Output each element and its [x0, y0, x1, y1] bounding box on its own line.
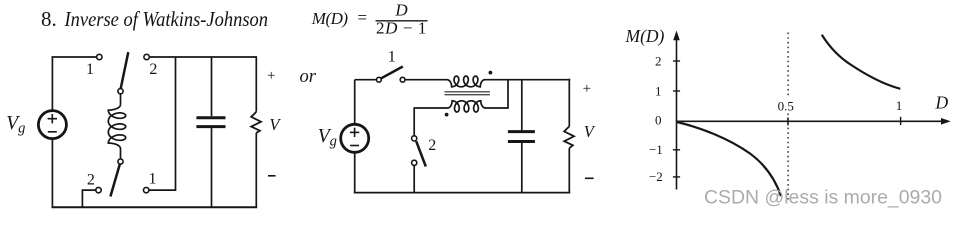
svg-text:1: 1	[149, 170, 157, 187]
curve lower branch	[677, 122, 781, 196]
source Vg (circle)	[341, 124, 369, 152]
label 0.5	[778, 98, 794, 113]
transformer primary (top winding)	[447, 76, 485, 87]
wire: capacitor branch bottom	[521, 143, 523, 193]
wire: top rail right	[149, 56, 256, 58]
svg-text:0.5: 0.5	[778, 98, 794, 113]
"or" between circuits	[300, 67, 317, 87]
fraction bar	[376, 20, 428, 22]
resistor zigzag	[564, 126, 574, 148]
y tick labels	[649, 53, 663, 184]
wire: top rail left to terminal 1	[52, 56, 97, 58]
svg-text:V: V	[269, 115, 281, 134]
terminal 2 (top right, open circle)	[144, 54, 149, 59]
wire: left rail top segment	[51, 57, 53, 110]
label D axis	[935, 93, 949, 113]
curve upper branch	[822, 35, 901, 89]
formula M(D) = D/(2D-1)	[311, 1, 427, 38]
switch 1 right contact	[400, 77, 405, 82]
Vg minus	[350, 145, 359, 147]
switch 2 blade	[416, 141, 426, 166]
wire: bottom rail	[354, 192, 570, 194]
svg-text:1: 1	[86, 61, 94, 78]
label 1 (top)	[86, 61, 94, 78]
svg-text:Vg: Vg	[318, 126, 337, 150]
phase dot bottom left	[445, 113, 449, 117]
terminal 2 (bottom left, open circle)	[96, 187, 101, 192]
svg-text:+: +	[583, 81, 591, 97]
wire: right rail top	[255, 56, 257, 112]
capacitor plates	[508, 132, 535, 142]
label + (output)	[583, 81, 591, 97]
label - (output)	[585, 177, 594, 179]
svg-text:1: 1	[388, 49, 396, 66]
switch 1 blade	[381, 67, 403, 79]
wire: secondary left stub down to switch 2	[414, 108, 448, 136]
svg-text:CSDN @less is more_0930: CSDN @less is more_0930	[704, 187, 942, 209]
wire: left rail bottom segment	[51, 139, 53, 207]
svg-text:D: D	[935, 93, 949, 113]
svg-text:=: =	[358, 8, 368, 27]
svg-text:2: 2	[655, 53, 662, 68]
svg-text:8.: 8.	[41, 7, 57, 31]
wire: switch to transformer	[405, 79, 447, 81]
wire: bottom rail	[52, 206, 258, 208]
terminal 1 (bottom right, open circle)	[144, 187, 149, 192]
label - (output)	[268, 175, 276, 177]
dotted asymptote lower part	[787, 114, 789, 200]
wire: coil to bottom pivot	[120, 148, 122, 159]
svg-text:0: 0	[655, 113, 662, 128]
label 1 (switch 1)	[388, 49, 396, 66]
phase dot top right	[489, 71, 493, 75]
transformer secondary (bottom winding)	[448, 101, 486, 112]
svg-text:M(D): M(D)	[311, 9, 349, 28]
switch blade bottom	[110, 164, 120, 197]
label M(D) axis	[625, 26, 665, 46]
capacitor C plates	[196, 118, 225, 127]
label Vg	[318, 126, 337, 150]
source Vg (circle)	[38, 111, 66, 139]
switch 2 top contact	[412, 136, 417, 141]
label Vg	[6, 113, 25, 137]
y axis arrowhead	[673, 31, 680, 41]
wire: switch 2 to bottom rail	[413, 165, 415, 192]
wire: capacitor branch top	[521, 80, 523, 131]
Vg plus	[350, 128, 359, 137]
wire: left rail bottom	[354, 153, 356, 193]
label 2 (switch 2)	[428, 137, 436, 154]
svg-text:1: 1	[655, 83, 662, 98]
resistor R zigzag	[251, 112, 261, 133]
wire: capacitor branch bottom	[211, 128, 213, 207]
label 1 (x axis)	[896, 98, 903, 113]
x tick at D=0.5	[787, 117, 789, 125]
svg-text:D: D	[394, 1, 408, 20]
wire: secondary right stub up to top rail	[485, 80, 508, 108]
svg-text:2: 2	[149, 61, 157, 78]
x axis	[677, 120, 944, 122]
svg-text:or: or	[300, 67, 317, 87]
wire: right rail bottom	[568, 148, 570, 193]
pivot circle bottom of inductor	[118, 159, 123, 164]
wire: top rail to switch	[355, 79, 377, 81]
label 1 (bottom right)	[149, 170, 157, 187]
transformer core lines	[445, 92, 491, 95]
y ticks	[673, 61, 680, 177]
switch blade top (SPDT pole)	[121, 52, 129, 88]
wire: right rail top	[568, 79, 570, 127]
label + (output)	[267, 68, 275, 84]
switch 2 bottom contact	[412, 160, 417, 165]
label 2 (bottom left)	[87, 172, 95, 189]
svg-text:1: 1	[896, 98, 903, 113]
Vg minus sign	[48, 131, 57, 133]
Vg plus sign	[48, 114, 57, 123]
svg-text:M(D): M(D)	[625, 26, 665, 46]
wire: bottom terminal 1 to riser	[149, 57, 176, 190]
wire: terminal 2 stub to bottom rail	[82, 190, 95, 207]
title "8. Inverse of Watkins-Johnson"	[41, 7, 268, 31]
svg-text:−1: −1	[649, 142, 663, 157]
y axis	[676, 38, 678, 190]
dotted asymptote at D=0.5	[787, 33, 789, 98]
svg-text:+: +	[267, 68, 275, 84]
watermark CSDN	[704, 187, 942, 209]
label V (output)	[269, 115, 281, 134]
label 2 (top right)	[149, 61, 157, 78]
wire: left rail top	[354, 80, 356, 124]
wire: right rail bottom	[255, 133, 257, 207]
switch 1 left contact	[377, 77, 382, 82]
inductor L (4 loops)	[108, 105, 125, 149]
terminal 1 (top left, open circle)	[97, 54, 102, 59]
x tick at D=1	[900, 117, 902, 125]
pivot circle top of inductor	[118, 89, 123, 94]
svg-text:Inverse of Watkins-Johnson: Inverse of Watkins-Johnson	[64, 7, 268, 31]
svg-text:−2: −2	[649, 169, 663, 184]
wire: pivot to coil	[120, 94, 122, 105]
svg-text:2: 2	[428, 137, 436, 154]
svg-text:Vg: Vg	[6, 113, 25, 137]
svg-text:2: 2	[87, 172, 95, 189]
x axis arrowhead	[941, 118, 951, 125]
wire: top rail to output	[485, 79, 571, 81]
svg-text:V: V	[584, 122, 596, 141]
label V (output)	[584, 122, 596, 141]
wire: capacitor branch top	[211, 57, 213, 116]
